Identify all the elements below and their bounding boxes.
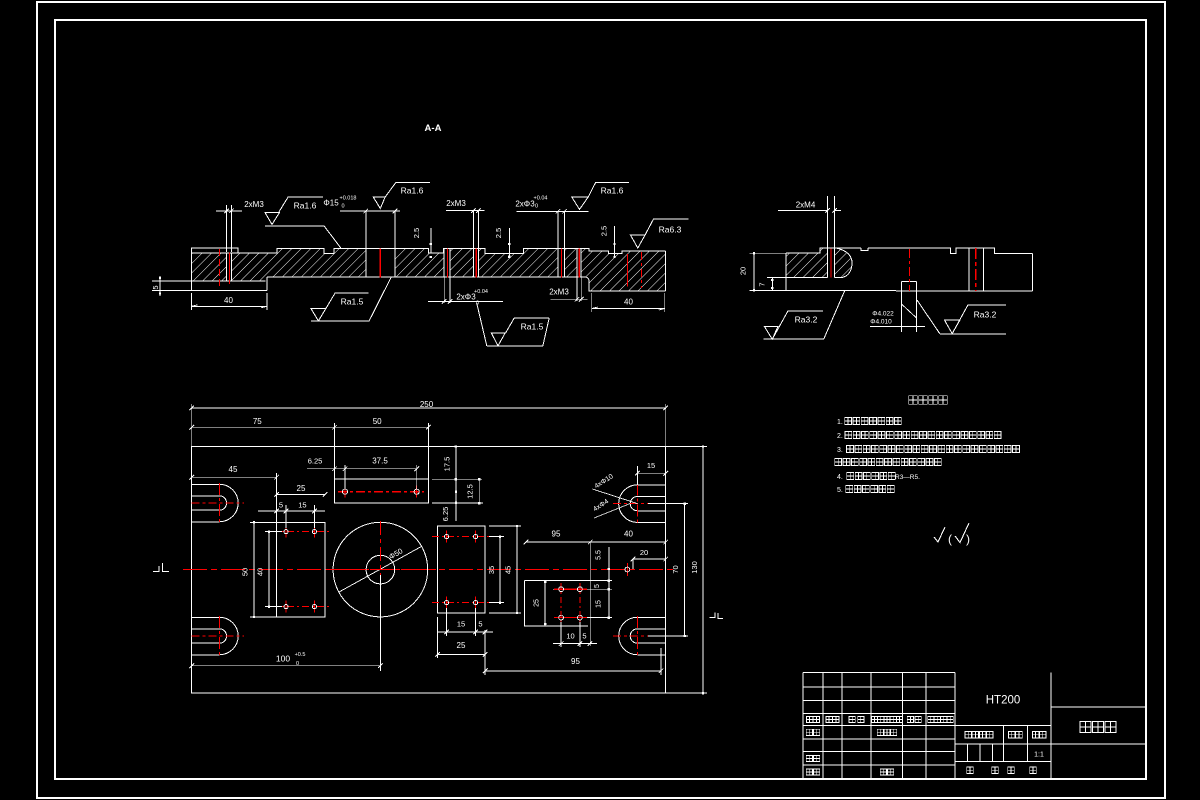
bottom row sheets <box>967 767 973 773</box>
svg-text:35: 35 <box>487 566 496 574</box>
right view bottom protrusion <box>900 281 902 331</box>
section A-A left lip <box>192 248 239 253</box>
svg-text:0: 0 <box>341 204 344 210</box>
svg-text:5: 5 <box>151 285 160 289</box>
middle hole block <box>438 526 485 613</box>
svg-text:2.5: 2.5 <box>494 228 503 238</box>
svg-text:40: 40 <box>624 530 633 539</box>
svg-text:2.: 2. <box>837 433 843 440</box>
dim 50 / 40 left block <box>250 521 277 523</box>
dim 100 bottom left <box>379 575 381 671</box>
dim 45 <box>192 476 277 478</box>
right view inner seat line <box>786 277 827 279</box>
dim 17.5 / 6.25 right of top block <box>432 446 461 448</box>
right view hatch boss left <box>786 248 827 277</box>
section A-A left edge <box>191 248 193 290</box>
svg-text:250: 250 <box>420 400 434 409</box>
svg-text:+0.04: +0.04 <box>474 289 488 295</box>
right view hatch boss right <box>835 248 853 277</box>
svg-text:15: 15 <box>457 620 465 629</box>
svg-text:Ra1.5: Ra1.5 <box>521 322 544 332</box>
U slot top-right <box>619 485 666 522</box>
svg-text:2xM3: 2xM3 <box>446 199 466 208</box>
svg-text:5: 5 <box>478 620 482 629</box>
dim 25 small block <box>544 581 546 626</box>
dim 25 below middle block <box>437 617 439 658</box>
svg-text:Φ15: Φ15 <box>323 199 339 208</box>
right view bottom <box>749 290 1032 292</box>
dim 10 5 below 4-hole block <box>560 622 562 647</box>
finish checkmarks <box>934 527 945 542</box>
inner circle phi15 <box>366 555 395 584</box>
dim 12.5 <box>432 502 483 504</box>
dim 250 <box>191 404 193 447</box>
svg-text:R3—R5.: R3—R5. <box>895 474 920 481</box>
svg-text:Ra3.2: Ra3.2 <box>974 310 997 320</box>
svg-text:2xM3: 2xM3 <box>244 200 264 209</box>
dim 95 bottom <box>484 630 486 675</box>
svg-text:Ra1.6: Ra1.6 <box>401 186 424 196</box>
svg-text:37.5: 37.5 <box>372 457 388 466</box>
svg-text:4.: 4. <box>837 474 843 481</box>
title block grid <box>802 673 804 779</box>
svg-text:(: ( <box>948 532 952 546</box>
dim 20 single hole <box>633 558 666 560</box>
svg-text:): ) <box>966 532 970 546</box>
right view boss arc <box>837 248 852 277</box>
dim 35 / 45 middle block <box>489 536 504 538</box>
Ra1.6 symbol 2 <box>373 197 385 209</box>
dim 2xM3 top-left <box>226 205 228 252</box>
svg-text:Ra6.3: Ra6.3 <box>659 225 682 235</box>
svg-text:Φ4.022: Φ4.022 <box>872 311 894 318</box>
section A-A outline <box>192 249 666 254</box>
svg-text:15: 15 <box>298 501 306 510</box>
section A-A red centerlines <box>219 249 221 287</box>
plan outer rectangle <box>192 447 666 694</box>
right view M4 hole walls <box>827 248 829 277</box>
stage row <box>955 743 1051 745</box>
Ra6.3 symbol <box>631 235 646 248</box>
Ra1.5 symbol bottom-left <box>318 293 368 321</box>
svg-text:25: 25 <box>534 599 541 607</box>
circle red centerlines <box>379 521 381 625</box>
svg-text:75: 75 <box>253 417 262 426</box>
svg-text:Φ4.010: Φ4.010 <box>870 319 892 326</box>
dim 2xM4 <box>827 196 829 248</box>
dim 20 right view <box>749 252 786 254</box>
svg-text:17.5: 17.5 <box>443 457 452 472</box>
svg-text:40: 40 <box>624 298 633 307</box>
right view outline top <box>786 248 1032 253</box>
svg-text:130: 130 <box>690 561 699 574</box>
right view right hole walls <box>968 248 970 291</box>
section A-A hole wall lines <box>226 253 228 282</box>
dimension ticks <box>189 406 194 411</box>
dim 15 5 below middle block <box>446 608 448 636</box>
svg-text:20: 20 <box>739 267 748 275</box>
svg-text:5.5: 5.5 <box>596 550 603 560</box>
section A-A hatch body <box>192 249 666 292</box>
svg-text:HT200: HT200 <box>986 695 1021 707</box>
dim 5.5 5 15 column <box>608 547 610 618</box>
svg-text:45: 45 <box>504 566 513 574</box>
svg-text:6.25: 6.25 <box>441 507 450 522</box>
svg-text:5: 5 <box>594 584 601 588</box>
title block mid/right verticals <box>1050 673 1052 779</box>
dim 75 / 50 <box>192 426 429 428</box>
svg-text:Ra3.2: Ra3.2 <box>795 315 818 325</box>
svg-text:2xM3: 2xM3 <box>549 288 569 297</box>
svg-text:70: 70 <box>671 565 680 573</box>
Ra3.2 symbol 1 <box>772 311 823 339</box>
svg-text:15: 15 <box>596 600 603 608</box>
svg-text:10: 10 <box>566 632 574 641</box>
Ra1.6 symbol 1 <box>279 197 323 212</box>
section A-A right edge <box>664 251 666 291</box>
svg-text:1.: 1. <box>837 419 843 426</box>
hole circles redraw on top <box>284 530 288 534</box>
dim 40 right <box>591 293 593 312</box>
section A-A bottoms <box>192 280 266 282</box>
dim 15 top right slot <box>636 466 638 485</box>
left hole block <box>277 522 325 617</box>
dim 5 left <box>152 280 192 282</box>
svg-text:7: 7 <box>758 282 767 286</box>
svg-text:50: 50 <box>373 417 382 426</box>
U slot bottom-left <box>192 617 238 655</box>
Ra1.6 symbol 3 <box>572 197 589 210</box>
svg-text:2.5: 2.5 <box>412 228 421 238</box>
svg-text:A-A: A-A <box>425 123 442 134</box>
svg-text:2xΦ3: 2xΦ3 <box>515 200 535 209</box>
svg-text:15: 15 <box>647 461 655 470</box>
svg-text:0: 0 <box>535 204 538 210</box>
dim 70 / 130 right <box>648 503 688 505</box>
dim 2xphi3 bottom mid <box>443 278 445 304</box>
small 4-hole block <box>524 581 612 626</box>
right view red centerlines <box>830 249 832 278</box>
dim 95 40 right top <box>526 541 666 543</box>
hole cutouts <box>227 253 232 282</box>
datum mark right <box>710 613 716 618</box>
svg-text:+0.04: +0.04 <box>534 195 548 201</box>
svg-text:45: 45 <box>229 465 238 474</box>
svg-text:95: 95 <box>552 530 561 539</box>
U slot top-left <box>192 484 238 522</box>
right part name cells <box>1051 706 1146 708</box>
top slot block <box>335 447 429 503</box>
dim 2xphi3 right top <box>557 211 559 248</box>
left table labels <box>807 716 813 722</box>
dim 2xM3 bottom right <box>576 278 578 302</box>
svg-text:2xM4: 2xM4 <box>796 200 816 209</box>
svg-text:Ra1.6: Ra1.6 <box>294 201 317 211</box>
dim 25 / 5 15 left block <box>276 490 278 522</box>
U slot bottom-right <box>619 617 666 655</box>
svg-text:5: 5 <box>582 632 586 641</box>
right view edges <box>785 253 787 290</box>
red square connecting 4 holes <box>554 588 587 590</box>
single hole near right <box>625 567 630 572</box>
svg-text:50: 50 <box>241 568 250 576</box>
tech requirements title <box>909 396 918 405</box>
svg-text:1:1: 1:1 <box>1034 752 1044 759</box>
svg-text:5: 5 <box>279 501 283 510</box>
sub cells row <box>955 761 1051 763</box>
svg-text:0: 0 <box>296 661 299 667</box>
big circle phi50 <box>333 522 428 617</box>
dim phi15 <box>365 211 367 248</box>
svg-text:12.5: 12.5 <box>466 484 475 499</box>
svg-text:+0.5: +0.5 <box>295 652 306 658</box>
svg-text:95: 95 <box>571 657 580 666</box>
svg-text:40: 40 <box>256 568 265 576</box>
svg-text:Ra1.5: Ra1.5 <box>341 297 364 307</box>
svg-text:100: 100 <box>276 654 290 664</box>
dim 6.25 / 37.5 top block <box>307 468 417 470</box>
dim 7 right view <box>767 277 786 279</box>
svg-text:+0.018: +0.018 <box>340 195 357 201</box>
svg-text:20: 20 <box>640 548 648 557</box>
circle diagonal leader <box>339 546 421 592</box>
svg-text:25: 25 <box>457 641 466 650</box>
dim 40 left <box>191 293 193 310</box>
svg-text:5.: 5. <box>837 487 843 494</box>
svg-text:2.5: 2.5 <box>600 226 609 236</box>
svg-text:Ra1.6: Ra1.6 <box>601 186 624 196</box>
Ra1.5 symbol 2 <box>506 318 550 333</box>
svg-text:40: 40 <box>224 296 233 305</box>
dimension dots <box>253 521 255 523</box>
datum mark left <box>153 566 159 572</box>
svg-text:6.25: 6.25 <box>308 456 323 465</box>
dim 2xM3 mid <box>472 211 474 248</box>
svg-text:25: 25 <box>297 484 306 493</box>
HT200 cell <box>955 725 1051 727</box>
svg-text:3.: 3. <box>837 447 843 454</box>
plan main centerline <box>183 569 673 571</box>
Ra3.2 symbol 2 <box>952 305 1006 334</box>
